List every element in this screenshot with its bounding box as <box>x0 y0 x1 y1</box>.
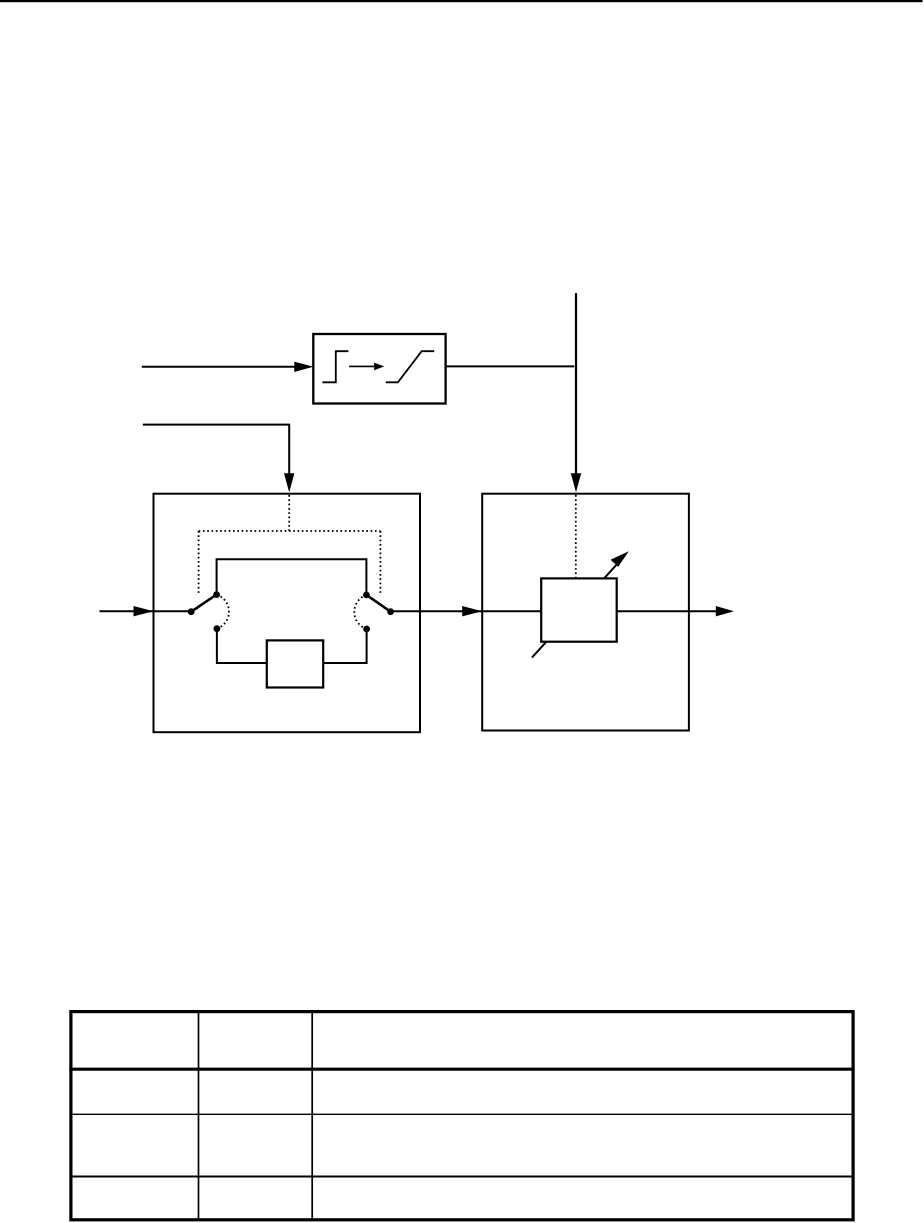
dotted crossbar <box>199 530 381 532</box>
wire: S1 lower contact to filter <box>217 629 267 663</box>
dotted control net inside bypass block <box>199 495 381 629</box>
wire: through gain block (right half) <box>617 610 689 612</box>
dotted drop to switch S2 <box>379 531 381 594</box>
filter block <box>267 640 323 687</box>
arrowhead into bypass block <box>284 473 294 492</box>
table column line 1 <box>198 1010 200 1220</box>
wire: bypass output to gain block <box>391 610 483 612</box>
wire: input into ramp limiter <box>142 366 296 368</box>
switch S2 pivot dot <box>387 608 394 615</box>
wire: main input <box>100 610 192 612</box>
arrowhead at ramp limiter input <box>294 362 313 372</box>
step glyph <box>322 351 348 382</box>
switch S2 lower contact dot <box>363 626 370 633</box>
output arrowhead <box>716 606 734 616</box>
switch S1 lower contact dot <box>214 625 221 632</box>
table column line 2 <box>311 1010 313 1220</box>
arrowhead at gain block input <box>462 606 482 616</box>
bypass block outline <box>154 494 421 733</box>
dotted stem from top arrow <box>288 495 290 531</box>
dotted control stem inside gain block <box>575 495 577 578</box>
switch S1 upper contact dot <box>213 591 220 598</box>
switch S1 pivot dot <box>188 608 195 615</box>
switch S1 blade <box>191 595 216 612</box>
switch S2 blade <box>366 595 390 612</box>
table row line 3 <box>71 1176 853 1178</box>
wire: ramp limiter output to setpoint line <box>446 365 575 367</box>
gain block outline <box>482 494 689 731</box>
switch S2 upper contact dot <box>363 592 370 599</box>
page header rule <box>0 0 923 2</box>
dotted drop to switch S1 <box>198 531 200 595</box>
ramp glyph <box>386 351 434 382</box>
ramp limiter block U1 <box>313 334 445 404</box>
dotted arc at switch S1 <box>217 595 229 629</box>
wire: through gain block (left half) <box>482 610 541 612</box>
glyph arrow <box>349 365 375 367</box>
table outer border <box>71 1012 853 1220</box>
bypass wire (upper direct path) <box>217 559 367 595</box>
arrowhead into gain block <box>571 473 581 492</box>
variable-gain diagonal arrow <box>532 560 621 658</box>
wire: setpoint line from page top <box>575 293 577 475</box>
table row line 2 <box>71 1113 853 1115</box>
dotted arc at switch S2 <box>354 595 366 629</box>
arrowhead at bypass block input <box>134 606 154 616</box>
wire: control line into bypass block <box>143 425 289 475</box>
table header separator (thick) <box>69 1068 854 1071</box>
wire: output <box>689 610 717 612</box>
wire: S2 lower contact to filter <box>323 629 366 663</box>
gain inner block <box>541 578 617 641</box>
